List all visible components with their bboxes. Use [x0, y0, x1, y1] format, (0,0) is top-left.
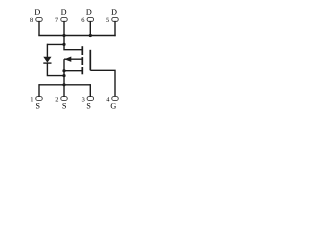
terminal circle pin 8	[36, 18, 42, 22]
mosfet Q1 top channel bar (drain)	[81, 46, 83, 55]
terminal circle pin 3	[87, 97, 93, 101]
mosfet Q1 body stub wire	[64, 58, 82, 60]
junction dot drain bus / pin6	[89, 34, 92, 37]
label D pin 8	[35, 9, 40, 14]
terminal circle pin 1	[36, 97, 42, 101]
label S pin 3	[87, 103, 91, 108]
mosfet Q1 gate bar	[89, 50, 91, 71]
label G pin 4	[111, 103, 116, 108]
label S pin 2	[62, 103, 66, 108]
wire pin1 drop from source bus	[38, 84, 40, 96]
mosfet Q1 source stub wire	[64, 70, 82, 72]
pin number 2	[56, 97, 59, 101]
wire diode anode vertical	[46, 44, 48, 58]
terminal circle pin 2	[61, 97, 67, 101]
wire pin6 stub down to drain bus	[89, 21, 91, 36]
junction dot diode bottom / source vertical	[62, 74, 65, 77]
wire drain vertical from bus down and right to mosfet top bar	[64, 36, 82, 50]
terminal circle pin 6	[87, 18, 93, 22]
wire pin7 stub down to drain bus	[63, 21, 65, 35]
diode D1 cathode bar	[43, 62, 51, 64]
wire source vertical from arrow apex to pin 2	[63, 59, 65, 96]
label S pin 1	[36, 103, 40, 108]
pin number 5	[106, 18, 109, 22]
pin number 7	[55, 18, 58, 22]
diode D1 anode triangle pointing down	[43, 57, 51, 63]
terminal circle pin 7	[61, 18, 67, 22]
mosfet Q1 body arrow (P-channel, apex on source rail)	[64, 57, 71, 62]
wire pin8 stub down to drain bus	[38, 21, 40, 35]
label D pin 7	[61, 9, 66, 14]
wire drain bus horizontal	[38, 35, 115, 37]
mosfet Q1 middle channel bar (body)	[81, 57, 83, 65]
label D pin 6	[86, 9, 91, 14]
label D pin 5	[111, 9, 116, 14]
wire source bus horizontal	[39, 84, 90, 86]
junction dot source stub	[62, 69, 65, 72]
junction dot diode branch	[62, 43, 65, 46]
wire gate right and down to pin 4	[90, 70, 115, 96]
pin number 6	[82, 18, 85, 22]
terminal circle pin 5	[112, 18, 118, 22]
mosfet Q1 bottom channel bar (source)	[81, 67, 83, 74]
pin number 3	[82, 97, 85, 101]
wire diode cathode down and right to source vertical	[47, 63, 64, 76]
pin number 8	[30, 18, 33, 22]
junction dot source bus / pin2	[62, 83, 65, 86]
wire pin3 drop from source bus	[89, 84, 91, 96]
terminal circle pin 4	[112, 97, 118, 101]
pin number 4	[106, 97, 109, 101]
pin number 1	[31, 97, 33, 101]
wire pin5 stub down to drain bus corner	[114, 21, 116, 36]
wire diode top branch	[47, 43, 64, 45]
junction dot drain bus / pin7	[62, 34, 65, 37]
